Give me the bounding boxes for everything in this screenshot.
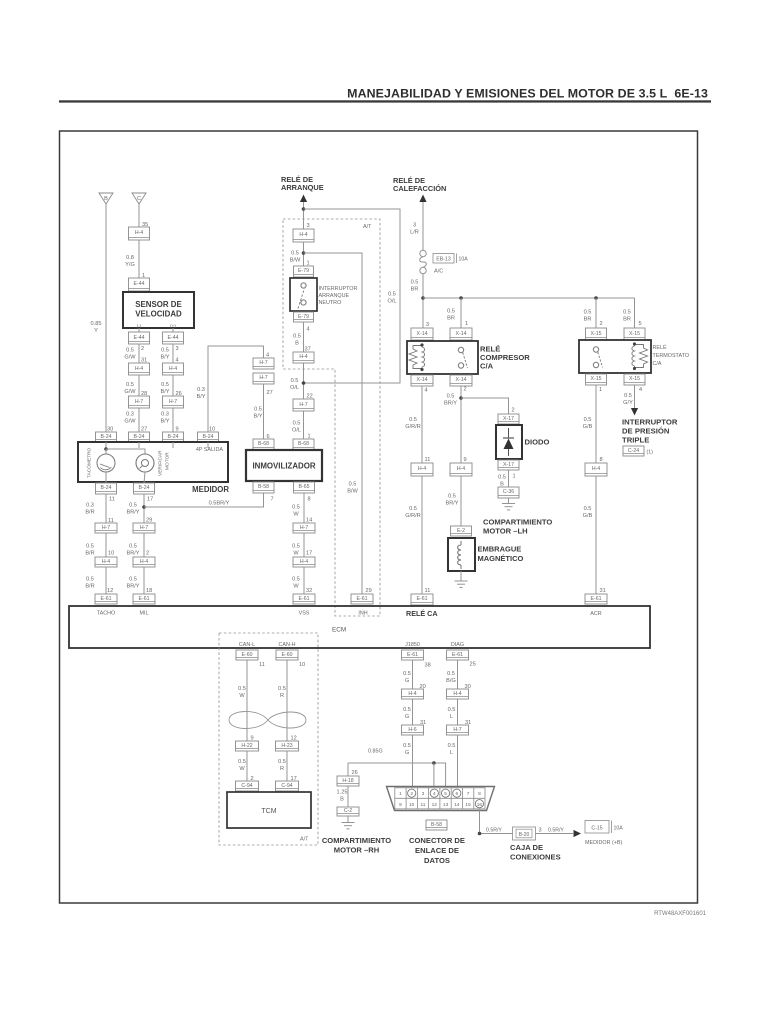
wire 0.5 G/R/R seg1 — [421, 386, 423, 463]
svg-text:7: 7 — [467, 791, 470, 797]
label 0.3 B/Y salida — [196, 387, 205, 400]
meter stub 10 — [207, 442, 209, 448]
svg-text:0.5: 0.5 — [161, 348, 169, 354]
connector B-24 pin27 — [129, 432, 150, 442]
label 0.5 BR b4 — [623, 310, 631, 323]
pin 1 X-14 — [465, 321, 468, 327]
arrow to meter fuse — [574, 830, 582, 837]
svg-text:H-22: H-22 — [241, 743, 252, 749]
connector H-18 — [337, 776, 359, 786]
svg-text:R: R — [280, 693, 284, 699]
label 0.5 B/G d1 — [446, 671, 456, 684]
wire 0.5 W vss2 — [303, 533, 305, 557]
diode box — [496, 425, 522, 459]
svg-text:W: W — [293, 512, 299, 518]
pin 7 — [271, 497, 274, 503]
svg-text:0.5: 0.5 — [238, 759, 246, 765]
connector H-4 j1850 — [402, 689, 424, 699]
connector E-79 top — [294, 266, 314, 277]
wire 0.5 BR/Y clutch2 — [460, 476, 462, 526]
pin 4 E-79 — [307, 327, 310, 333]
svg-text:0.5: 0.5 — [129, 577, 137, 583]
connector C-2 — [337, 807, 359, 816]
svg-text:0.5R/Y: 0.5R/Y — [548, 828, 564, 834]
label 0.5 B/R 2 — [85, 577, 94, 590]
svg-text:0.5: 0.5 — [161, 382, 169, 388]
svg-text:0.5: 0.5 — [291, 378, 299, 384]
wire 0.5 BR/Y clutch — [460, 386, 462, 463]
label ARRANQUE — [319, 293, 350, 299]
pin 4 H-7 — [266, 353, 269, 359]
svg-text:H-7: H-7 — [299, 402, 307, 408]
svg-text:G: G — [405, 750, 409, 756]
svg-text:0.5: 0.5 — [584, 417, 592, 423]
svg-text:CAN-H: CAN-H — [278, 642, 295, 648]
svg-text:O/L: O/L — [292, 428, 301, 434]
connector E-60 canh — [276, 650, 298, 660]
connector H-7 tacho — [95, 523, 117, 533]
BR bus — [423, 297, 635, 299]
header rule — [59, 100, 711, 102]
label 0.5 L d2 — [448, 707, 456, 720]
label 0.5 G/R/R 2 — [405, 506, 421, 519]
svg-text:W: W — [239, 766, 245, 772]
wire 0.5 B — [303, 322, 305, 352]
label 0.5 R can2 — [278, 759, 286, 772]
svg-text:8: 8 — [308, 497, 311, 503]
pin 37 — [305, 347, 311, 353]
svg-text:X-14: X-14 — [417, 377, 428, 383]
svg-text:H-4: H-4 — [169, 366, 177, 372]
wire 0.5 W can — [246, 660, 248, 741]
wire from triangle C — [138, 204, 140, 227]
svg-text:CALEFACCIÓN: CALEFACCIÓN — [393, 184, 446, 193]
pin 11 H-7 — [108, 518, 114, 524]
svg-text:8: 8 — [478, 791, 481, 797]
node O/L junction — [302, 381, 306, 385]
pin 20 — [420, 684, 426, 690]
svg-text:B-24: B-24 — [168, 434, 179, 440]
svg-text:B: B — [295, 341, 299, 347]
connector B-24 pin30 — [96, 432, 117, 442]
wire 0.5BR/Y to immobilizer — [144, 493, 264, 507]
svg-text:RTW48AXF001601: RTW48AXF001601 — [654, 911, 707, 917]
connector X-14 pin1 — [450, 328, 472, 340]
svg-text:E-44: E-44 — [134, 335, 145, 341]
svg-text:4: 4 — [639, 387, 642, 393]
junction MIL branch — [142, 505, 146, 509]
pin 1 B-68b — [0, 0, 1, 1]
connector C-36 — [498, 487, 519, 498]
svg-text:6: 6 — [455, 791, 458, 797]
svg-text:0.5: 0.5 — [278, 686, 286, 692]
svg-text:TERMOSTATO: TERMOSTATO — [653, 353, 690, 359]
svg-text:E-61: E-61 — [591, 596, 602, 602]
twisted pair symbol — [229, 711, 306, 728]
pin 2 — [141, 346, 144, 352]
svg-text:G: G — [405, 714, 409, 720]
svg-text:H-7: H-7 — [259, 375, 267, 381]
label 0.5 G/B 2 — [583, 506, 593, 519]
svg-text:B-68: B-68 — [258, 441, 269, 447]
rotated label VERIFICAR — [158, 450, 164, 476]
connector H-4 arranque — [293, 229, 314, 242]
svg-text:0.5: 0.5 — [293, 421, 301, 427]
svg-text:Y: Y — [94, 328, 98, 334]
svg-text:C/A: C/A — [480, 361, 494, 370]
svg-text:1.25: 1.25 — [337, 790, 348, 796]
svg-text:3: 3 — [426, 322, 429, 328]
wire drop pin4 — [433, 763, 435, 789]
connector triangle B — [99, 193, 113, 204]
svg-text:0.5: 0.5 — [349, 482, 357, 488]
wire 0.85G horizontal — [348, 763, 446, 789]
svg-text:R: R — [280, 766, 284, 772]
svg-text:0.5: 0.5 — [129, 544, 137, 550]
svg-text:INH: INH — [358, 611, 367, 617]
data link connector grid — [395, 788, 485, 809]
pin 1 X-15 — [599, 387, 602, 393]
label COMPARTIMIENTO MOTOR LH — [483, 518, 552, 536]
connector H-4 mil — [133, 557, 155, 567]
label MEDIDOR +B — [585, 840, 622, 846]
node BR bus 2 — [459, 296, 463, 300]
svg-text:DIODO: DIODO — [525, 438, 550, 447]
svg-text:L: L — [450, 714, 453, 720]
svg-text:H-4: H-4 — [102, 559, 110, 565]
svg-text:H-7: H-7 — [169, 399, 177, 405]
label 0.5 O/L bypass — [387, 292, 396, 305]
connector H-4 pin37 — [293, 352, 314, 363]
svg-text:2: 2 — [600, 321, 603, 327]
pin 2 X-14 — [464, 387, 467, 393]
meter lamp out — [144, 472, 145, 483]
svg-text:B-65: B-65 — [299, 484, 310, 490]
label CAJA DE CONEXIONES — [510, 843, 561, 862]
label RELE TERMOSTATO 3 — [653, 361, 662, 367]
svg-text:DE PRESIÓN: DE PRESIÓN — [622, 427, 670, 436]
compressor relay coil — [409, 345, 425, 369]
pin 1 E-79 — [307, 261, 310, 267]
connector B-58 pin7 — [253, 482, 274, 493]
diode symbol — [503, 428, 514, 456]
wire 0.5 L d3 — [457, 735, 459, 789]
svg-text:C/A: C/A — [653, 361, 662, 367]
wire 0.5 G/R/R seg2 — [421, 476, 423, 594]
wire clutch ground — [460, 571, 462, 581]
svg-text:ENLACE DE: ENLACE DE — [415, 846, 459, 855]
connector H-4 clutch — [450, 463, 472, 476]
speed sensor box — [123, 292, 194, 328]
wire 0.5 G j1 — [412, 660, 414, 689]
svg-text:ACR: ACR — [590, 611, 601, 617]
svg-text:B/Y: B/Y — [160, 355, 169, 361]
connector E-61 MIL — [133, 594, 155, 604]
svg-text:E-44: E-44 — [168, 335, 179, 341]
A/T dashed region outline — [283, 219, 380, 616]
meter internal wire — [106, 449, 145, 454]
svg-text:H-7: H-7 — [140, 525, 148, 531]
label RELE COMPRESOR C/A — [480, 345, 530, 371]
label RELE CA — [406, 609, 438, 618]
label 0.5 G/Y — [623, 393, 633, 406]
label 0.5 B/Y 2 — [160, 382, 169, 395]
svg-text:10: 10 — [299, 662, 305, 668]
tachometer gauge symbol — [97, 454, 115, 472]
svg-text:X-14: X-14 — [456, 377, 467, 383]
svg-text:H-7: H-7 — [102, 525, 110, 531]
label 0.5 BR — [411, 280, 419, 293]
svg-text:0.5: 0.5 — [411, 280, 419, 286]
wire 0.5 G j2 — [412, 699, 414, 725]
svg-text:1: 1 — [465, 321, 468, 327]
data link connector pin numbers — [399, 791, 482, 808]
svg-text:4: 4 — [433, 791, 436, 797]
svg-text:BR: BR — [447, 316, 455, 322]
meter stub 9 — [172, 442, 174, 448]
svg-text:0.3: 0.3 — [86, 503, 94, 509]
wire 0.8 Y/G — [138, 240, 140, 278]
thermostat relay box — [579, 340, 651, 373]
svg-text:0.5: 0.5 — [86, 544, 94, 550]
svg-text:H-4: H-4 — [299, 232, 307, 238]
svg-text:0.5: 0.5 — [278, 759, 286, 765]
wire 0.5 BR b2 — [460, 298, 462, 328]
wire to ground rh — [347, 816, 349, 823]
pin 10 — [209, 427, 215, 433]
label 0.8 Y/G — [125, 255, 135, 268]
svg-text:L: L — [450, 750, 453, 756]
svg-text:E-79: E-79 — [298, 314, 309, 320]
data link connector pin circles — [408, 789, 484, 808]
svg-text:B-24: B-24 — [203, 434, 214, 440]
svg-text:(+): (+) — [170, 324, 176, 329]
svg-text:W: W — [293, 584, 299, 590]
svg-text:H-4: H-4 — [300, 559, 308, 565]
label 1.25 B — [337, 790, 348, 803]
svg-text:E-61: E-61 — [417, 596, 428, 602]
svg-text:0.5: 0.5 — [447, 394, 455, 400]
connector H-7 mil — [133, 523, 155, 533]
svg-text:Y/G: Y/G — [125, 262, 135, 268]
svg-text:H-4: H-4 — [592, 466, 600, 472]
svg-text:H-6: H-6 — [408, 727, 416, 733]
compressor relay switch — [458, 347, 467, 368]
pin 11 meter — [109, 497, 115, 503]
pin 38 — [425, 663, 431, 669]
svg-text:B/Y: B/Y — [253, 414, 262, 420]
svg-text:0.5: 0.5 — [126, 382, 134, 388]
svg-text:0.5: 0.5 — [448, 494, 456, 500]
node pin16 corner — [478, 832, 482, 836]
connector E-61 TACHO — [95, 594, 117, 604]
check engine lamp symbol — [136, 454, 154, 472]
svg-text:3: 3 — [413, 223, 416, 229]
label 0.3 G/W — [124, 412, 136, 425]
label 3 L/R — [410, 223, 419, 236]
label 0.5 BR b3 — [584, 310, 592, 323]
connector C-94 left — [236, 781, 259, 791]
svg-text:B/R: B/R — [85, 584, 94, 590]
label 0.5 B/W — [290, 251, 301, 264]
svg-text:E-79: E-79 — [298, 268, 309, 274]
svg-text:0.5: 0.5 — [584, 506, 592, 512]
wire 0.5 O/L down — [303, 363, 305, 399]
pin 1 B-68 — [308, 434, 311, 440]
svg-text:B-68: B-68 — [298, 441, 309, 447]
svg-text:B/R: B/R — [85, 551, 94, 557]
compressor relay box — [407, 341, 478, 374]
label SENSOR DE VELOCIDAD — [135, 300, 182, 319]
junction block connector B-20 — [513, 827, 536, 840]
connector E-61 RELE CA — [411, 594, 433, 605]
svg-text:BR/Y: BR/Y — [445, 501, 458, 507]
svg-text:X-14: X-14 — [456, 331, 467, 337]
svg-text:H-4: H-4 — [299, 354, 307, 360]
label 0.5R/Y left — [486, 828, 502, 834]
svg-text:E-61: E-61 — [452, 652, 463, 658]
pin 35 — [142, 222, 148, 228]
svg-text:13: 13 — [443, 802, 449, 808]
connector H-7 pin28 — [129, 396, 150, 408]
pin 22 — [307, 394, 313, 400]
svg-text:0.3: 0.3 — [126, 412, 134, 418]
connector B-65 pin8 — [294, 482, 315, 493]
label INH — [358, 611, 367, 617]
svg-text:A/T: A/T — [300, 837, 309, 843]
svg-text:0.5: 0.5 — [623, 310, 631, 316]
switch symbol neutral start — [298, 283, 306, 309]
svg-text:BR: BR — [584, 317, 592, 323]
connector H-4 pin31 — [129, 363, 150, 375]
svg-text:5: 5 — [444, 791, 447, 797]
svg-text:0.5BR/Y: 0.5BR/Y — [209, 501, 230, 507]
neutral start switch box — [290, 278, 317, 311]
svg-text:ECM: ECM — [332, 627, 346, 634]
svg-text:O/L: O/L — [387, 299, 396, 305]
svg-text:X-15: X-15 — [629, 376, 640, 382]
svg-text:C-36: C-36 — [503, 489, 514, 495]
svg-text:MEDIDOR: MEDIDOR — [192, 485, 229, 494]
connector H-23 — [276, 741, 299, 751]
pin 1 E-44 — [142, 273, 145, 279]
wire 0.5 B/Y seg2 — [172, 375, 174, 396]
svg-text:0.5: 0.5 — [403, 707, 411, 713]
svg-text:E-2: E-2 — [457, 528, 465, 534]
svg-text:0.8: 0.8 — [126, 255, 134, 261]
wire 0.5 BR — [422, 274, 424, 328]
connector E-44 pin3 — [163, 332, 184, 344]
label 0.85G — [368, 749, 383, 755]
pin 27 H-7 — [267, 390, 273, 396]
connector H-22 — [236, 741, 259, 751]
sensor stub left — [138, 328, 140, 332]
svg-text:2: 2 — [146, 551, 149, 557]
data link connector outline — [387, 787, 495, 811]
svg-text:A/C: A/C — [434, 269, 443, 275]
svg-text:0.5: 0.5 — [238, 686, 246, 692]
arrow to pressure switch — [631, 408, 638, 416]
svg-text:10: 10 — [108, 551, 114, 557]
wire 0.5 W vss1 — [303, 493, 305, 523]
svg-text:0.5: 0.5 — [498, 475, 506, 481]
pin 26 H-18 — [352, 770, 358, 776]
label CAN-H — [278, 642, 295, 648]
svg-text:H-4: H-4 — [457, 466, 465, 472]
svg-text:MOTOR: MOTOR — [165, 452, 171, 470]
svg-text:CONEXIONES: CONEXIONES — [510, 853, 561, 862]
label 0.5 G j3 — [403, 743, 411, 756]
ECM box — [69, 606, 650, 648]
svg-text:29: 29 — [366, 588, 372, 594]
compressor coil node top — [420, 343, 423, 346]
label 0.3 B/Y — [160, 412, 169, 425]
pin 30 — [107, 427, 113, 433]
svg-text:0.5: 0.5 — [403, 743, 411, 749]
connector H-7 vss — [293, 523, 315, 533]
connector E-79 bottom — [294, 312, 314, 322]
label DIODO — [525, 438, 550, 447]
connector H-4 grr — [411, 463, 433, 476]
svg-text:MOTOR –LH: MOTOR –LH — [483, 527, 528, 536]
node 0.85G branch — [432, 761, 436, 765]
svg-text:11: 11 — [425, 457, 431, 463]
svg-text:H-7: H-7 — [259, 360, 267, 366]
label 0.5 B diode — [498, 475, 506, 488]
svg-text:B: B — [104, 196, 108, 202]
pin 18 E-61 — [146, 588, 152, 594]
svg-text:E-44: E-44 — [134, 281, 145, 287]
pin 29 H-7 — [146, 518, 152, 524]
svg-text:7: 7 — [271, 497, 274, 503]
svg-text:12: 12 — [432, 802, 438, 808]
pin 25 — [470, 662, 476, 668]
meter stub 30 — [105, 442, 107, 449]
svg-text:(-): (-) — [137, 324, 142, 329]
wire to starter relay — [303, 202, 305, 229]
label 0.5 G/R/R — [405, 417, 421, 430]
label 0.5 B — [293, 334, 301, 347]
label COMPARTIMIENTO MOTOR RH — [322, 836, 391, 855]
svg-text:0.5: 0.5 — [292, 577, 300, 583]
wire 0.5 BR/Y mil — [143, 494, 145, 523]
pin 11 canl — [259, 662, 265, 668]
svg-text:VSS: VSS — [299, 611, 310, 617]
arrow to heater relay — [419, 195, 426, 203]
svg-text:32: 32 — [306, 588, 312, 594]
label 0.5 BR/Y clutch — [444, 394, 457, 407]
wire 0.5 G/B seg2 — [595, 476, 597, 594]
svg-text:MEDIDOR (+B): MEDIDOR (+B) — [585, 840, 622, 846]
connector C-94 right — [276, 781, 299, 791]
label CONECTOR DE ENLACE DE DATOS — [409, 836, 465, 865]
svg-text:EB-13: EB-13 — [436, 257, 451, 263]
connector X-15 pin5 — [624, 328, 645, 340]
wire 1.25 B — [347, 786, 349, 807]
svg-text:O/L: O/L — [290, 385, 299, 391]
svg-text:RELÉ: RELÉ — [653, 344, 667, 351]
svg-text:1: 1 — [513, 474, 516, 480]
connector B-68 pin1 — [293, 439, 314, 450]
connector H-7 lower — [253, 373, 274, 384]
label 0.5 G j1 — [403, 671, 411, 684]
label J1850 — [405, 642, 420, 648]
pin 2 H-4 — [146, 551, 149, 557]
meter stub 27 — [138, 442, 140, 448]
svg-text:BR/Y: BR/Y — [126, 510, 139, 516]
svg-text:VELOCIDAD: VELOCIDAD — [135, 310, 182, 319]
svg-text:H-4: H-4 — [408, 691, 416, 697]
